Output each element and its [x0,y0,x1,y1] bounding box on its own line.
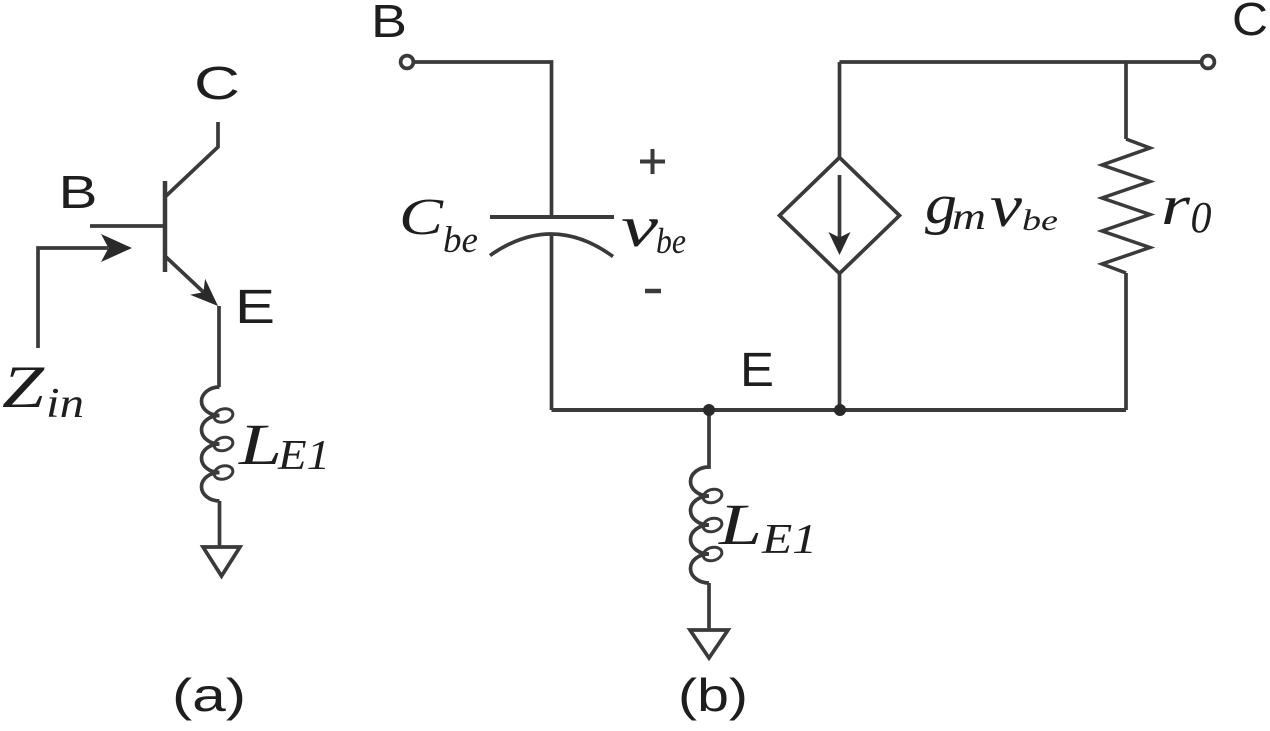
svg-text:0: 0 [1191,193,1212,242]
svg-text:B: B [371,0,407,47]
svg-text:(a): (a) [172,669,246,721]
svg-text:(b): (b) [678,669,748,721]
svg-text:be: be [1022,204,1058,237]
svg-text:m: m [952,196,986,238]
svg-text:in: in [46,381,84,427]
svg-text:be: be [443,220,478,261]
svg-text:E1: E1 [277,433,330,479]
svg-text:E: E [740,344,774,397]
svg-text:v: v [990,173,1022,239]
svg-text:C: C [399,189,445,246]
svg-text:v: v [621,194,658,259]
svg-text:E: E [235,281,275,334]
svg-text:L: L [238,412,282,477]
svg-text:C: C [194,57,240,109]
svg-text:B: B [59,166,98,218]
svg-text:E1: E1 [761,517,817,563]
svg-text:L: L [718,492,762,557]
svg-text:C: C [1232,0,1268,45]
svg-text:Z: Z [2,354,45,420]
svg-text:be: be [656,221,686,261]
svg-text:r: r [1161,175,1190,237]
